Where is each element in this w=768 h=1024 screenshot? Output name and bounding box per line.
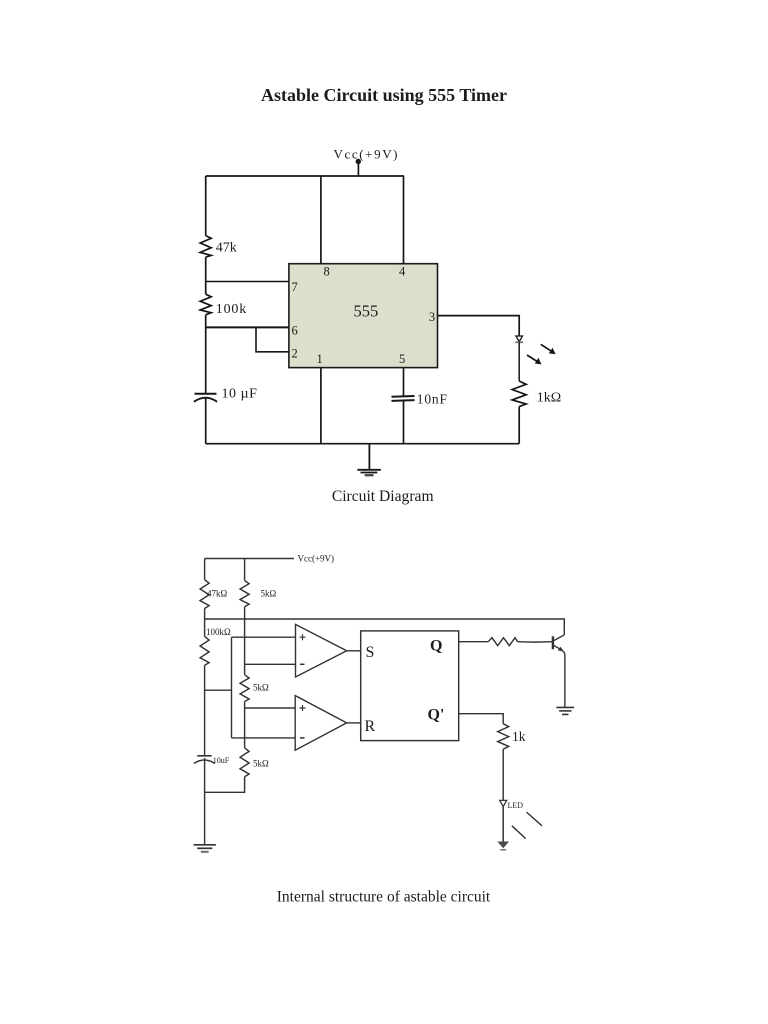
capacitor C3 10uF curved plate — [194, 760, 215, 764]
wire: left rail between 47k and 100k — [205, 257, 207, 294]
wire: top supply rail (internal structure) — [205, 558, 294, 560]
svg-text:Internal structure of astable: Internal structure of astable circuit — [277, 889, 491, 906]
ground GND1 bar 2 — [361, 472, 378, 474]
wire: second rail middle to lower 5k — [244, 702, 246, 748]
svg-text:Q': Q' — [428, 707, 445, 724]
svg-text:LED: LED — [508, 801, 524, 810]
capacitor C2 10nF bottom plate — [392, 399, 415, 402]
resistor R6 5k ohm top — [240, 581, 249, 607]
resistor R9 base resistor — [488, 638, 517, 646]
svg-text:3: 3 — [429, 310, 435, 324]
svg-text:Vcc(+9V): Vcc(+9V) — [298, 554, 335, 564]
wire: Q output to base resistor — [459, 641, 489, 643]
svg-text:5: 5 — [399, 352, 405, 366]
wire: pin 5 upper segment — [403, 368, 405, 397]
ground GND2 bar 2 — [197, 847, 212, 849]
wire: second rail to middle 5k — [244, 607, 246, 675]
svg-text:47k: 47k — [216, 241, 237, 256]
resistor R8 5k ohm bottom — [240, 748, 249, 777]
svg-text:2: 2 — [292, 347, 298, 361]
ground GND4 small bar — [500, 849, 506, 851]
capacitor C3 10uF top plate — [197, 755, 211, 757]
svg-text:100kΩ: 100kΩ — [206, 627, 231, 637]
ground GND3 bar 3 — [562, 713, 569, 715]
capacitor C1 10uF top plate — [195, 393, 217, 395]
wire: comparator1 minus input — [245, 663, 296, 665]
wire: pin 1 to ground rail — [320, 368, 322, 444]
LED D1 triangle — [516, 336, 523, 342]
resistor R10 1k — [498, 724, 509, 750]
wire: LED to ground arrow — [502, 807, 504, 842]
svg-text:10uF: 10uF — [213, 756, 230, 765]
wire: 1k to LED — [502, 749, 504, 800]
wire: left rail 47k to 100k — [204, 609, 206, 637]
svg-text:5kΩ: 5kΩ — [261, 589, 277, 599]
wire: threshold vertical link — [231, 637, 233, 738]
svg-text:1k: 1k — [512, 729, 526, 744]
wire: left rail top segment — [204, 559, 206, 580]
svg-text:5kΩ: 5kΩ — [253, 759, 269, 769]
svg-text:555: 555 — [354, 302, 379, 321]
svg-text:10 µF: 10 µF — [222, 387, 258, 402]
ground GND4 arrow — [497, 842, 509, 849]
svg-text:6: 6 — [292, 324, 298, 338]
resistor R7 5k ohm middle — [240, 675, 249, 702]
svg-text:Vcc(+9V): Vcc(+9V) — [334, 147, 400, 162]
wire: comparator2 minus input — [232, 737, 296, 739]
svg-text:8: 8 — [324, 265, 330, 279]
transistor Q1 emitter stroke — [554, 645, 562, 650]
wire: pin 4 to supply — [403, 176, 405, 264]
op-amp U3 comparator 2 — [295, 696, 347, 751]
svg-text:10nF: 10nF — [417, 392, 448, 407]
LED D2 light ray 2 — [512, 826, 526, 839]
wire: comparator1 output to S — [347, 650, 361, 652]
wire: left rail 100k to capacitor — [204, 665, 206, 755]
svg-text:7: 7 — [292, 280, 298, 294]
wire: capacitor node to threshold link — [205, 689, 232, 691]
ground GND1 stem — [368, 444, 370, 470]
ground GND2 bar 1 — [194, 844, 216, 846]
svg-text:Circuit Diagram: Circuit Diagram — [332, 488, 434, 505]
transistor Q1 collector stroke — [554, 635, 565, 641]
wire: top supply rail (top circuit) — [206, 175, 404, 177]
capacitor C1 10uF curved plate — [194, 398, 217, 402]
wire: bottom ground rail (top circuit) — [206, 443, 520, 445]
wire: pin 5 lower segment — [403, 401, 405, 444]
wire: comparator2 output to R — [347, 722, 361, 724]
svg-text:Q: Q — [430, 638, 442, 655]
wire: second rail bottom to cross wire — [205, 777, 245, 793]
svg-text:R: R — [365, 718, 376, 735]
svg-text:47kΩ: 47kΩ — [207, 589, 228, 599]
wire: pin 6 connection — [206, 326, 289, 328]
ground GND3 bar 2 — [559, 710, 571, 712]
node Vcc junction dot — [356, 159, 361, 164]
capacitor C2 10nF top plate — [392, 395, 415, 398]
transistor Q1 emitter arrowhead — [558, 647, 564, 652]
wire: emitter to ground — [563, 651, 565, 708]
resistor R5 100k ohm — [200, 636, 209, 665]
resistor R3 1k ohm — [512, 381, 526, 407]
wire: left rail capacitor to ground — [204, 758, 206, 845]
label comparator2 minus — [300, 737, 305, 739]
LED D1 light ray arrow 2 — [527, 355, 538, 362]
wire: discharge line from divider junction to transistor collector — [205, 619, 565, 635]
wire: left rail between 100k and capacitor — [205, 315, 207, 394]
resistor R4 47k ohm — [200, 580, 209, 609]
ground GND1 bar 3 — [365, 474, 374, 476]
svg-text:1: 1 — [317, 352, 323, 366]
resistor R2 100k — [200, 294, 211, 315]
svg-text:100k: 100k — [216, 302, 247, 317]
resistor R1 47k — [200, 236, 211, 258]
ground GND3 bar 1 — [556, 706, 574, 708]
label comparator1 minus — [300, 663, 305, 665]
label comparator2 plus — [300, 705, 306, 711]
wire: pin 2 stub — [256, 327, 289, 351]
wire: LED to 1k resistor — [518, 342, 520, 381]
label comparator1 plus — [300, 634, 306, 640]
LED D1 light ray arrow 1 — [541, 344, 552, 352]
svg-text:S: S — [366, 644, 375, 661]
LED D2 triangle — [500, 800, 507, 806]
svg-text:Astable Circuit using 555 Time: Astable Circuit using 555 Timer — [261, 85, 507, 105]
wire: left rail upper segment — [205, 176, 207, 236]
op-amp U2 comparator 1 — [296, 624, 347, 677]
latch U4 SR flip-flop body — [361, 631, 459, 741]
svg-text:4: 4 — [399, 265, 406, 279]
svg-text:5kΩ: 5kΩ — [253, 683, 269, 693]
node Vcc stem — [357, 161, 359, 176]
svg-text:1kΩ: 1kΩ — [537, 391, 561, 406]
wire: comparator2 plus input — [245, 707, 296, 709]
wire: pin 3 output — [438, 316, 520, 336]
wire: 1k to ground rail — [518, 407, 520, 444]
ground GND2 bar 3 — [201, 851, 209, 853]
wire: left rail below capacitor — [205, 398, 207, 444]
LED D1 cathode bar — [515, 341, 523, 343]
transistor Q1 base bar — [552, 636, 554, 649]
wire: pin 7 connection — [206, 281, 289, 283]
ground GND1 bar 1 — [357, 469, 381, 471]
LED D2 light ray 1 — [527, 812, 543, 826]
IC U1 555 body — [289, 264, 438, 368]
wire: pin 8 to supply — [320, 176, 322, 264]
wire: comparator1 plus input — [232, 636, 296, 638]
wire: base resistor to transistor base — [518, 641, 553, 643]
wire: second rail top segment — [244, 559, 246, 581]
wire: Q' output — [459, 714, 504, 724]
